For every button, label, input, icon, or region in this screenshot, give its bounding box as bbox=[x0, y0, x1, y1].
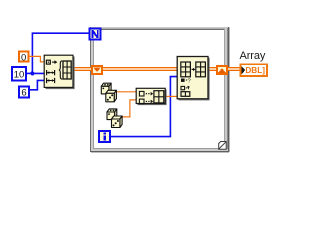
wire: constant 10 to Initialize Array (blue scalar) bbox=[27, 72, 44, 74]
count terminal N bbox=[90, 29, 101, 40]
svg-text:10: 10 bbox=[14, 70, 25, 81]
wire: junction up and right to count terminal N (blue scalar) bbox=[32, 33, 89, 73]
input array grid bbox=[181, 62, 191, 77]
wire: Build Array to Replace Array Subset (orange scalar) bbox=[165, 95, 177, 97]
dice 1 (random number) bbox=[101, 83, 116, 102]
svg-text:DBL]: DBL] bbox=[245, 66, 265, 75]
dice 2 (random number) bbox=[107, 109, 122, 128]
dimension glyph 2 bbox=[47, 78, 55, 83]
Replace Array Subset node bbox=[177, 57, 209, 100]
length row: outline square bbox=[181, 86, 185, 89]
right shift register terminal bbox=[217, 66, 227, 74]
iteration terminal i bbox=[99, 131, 110, 142]
loop resize corner handle bbox=[219, 142, 227, 150]
svg-text:6: 6 bbox=[21, 88, 26, 99]
wire junction dot on 10-wire bbox=[30, 71, 34, 75]
svg-text:Array: Array bbox=[240, 50, 266, 62]
wire: iteration terminal i to Replace Array Subset index (blue scalar) bbox=[111, 77, 177, 137]
element row 2 bbox=[139, 99, 144, 104]
dimension glyph 1 bbox=[47, 70, 55, 75]
svg-text:?: ? bbox=[188, 78, 191, 84]
left shift register terminal bbox=[92, 66, 102, 74]
svg-text:0: 0 bbox=[21, 52, 26, 63]
wire: dice 1 to Build Array (orange scalar) bbox=[116, 91, 137, 93]
subarray row bbox=[181, 92, 190, 97]
wire: constant 6 to Initialize Array (blue scalar) bbox=[30, 80, 44, 89]
wire: constant 0 to Initialize Array element (orange scalar) bbox=[30, 56, 45, 62]
arrow between grids bbox=[192, 68, 194, 70]
constant 0 bbox=[19, 52, 29, 64]
wire: right shift register to Array indicator (orange 2D array) bbox=[228, 68, 240, 71]
element glyph: square with dot and arrow bbox=[46, 60, 50, 64]
index row: filled square bbox=[181, 79, 185, 82]
constant 10 bbox=[12, 67, 26, 81]
Build Array node bbox=[136, 88, 166, 104]
constant 6 bbox=[19, 86, 29, 98]
wire: Replace Array Subset to right shift register (orange 2D array) bbox=[208, 68, 216, 71]
Initialize Array node bbox=[44, 55, 74, 88]
for-loop border bbox=[90, 27, 230, 153]
wire: dice 2 to Build Array (orange scalar) bbox=[122, 100, 137, 117]
element row 1 bbox=[139, 91, 144, 96]
output array grid bbox=[63, 61, 71, 79]
Array indicator terminal [DBL] bbox=[241, 64, 268, 76]
output brace bbox=[59, 61, 62, 79]
wire: left shift register to Replace Array Subset (orange 2D array) bbox=[103, 68, 177, 71]
wire: Initialize Array to left shift register (orange 2D array) bbox=[73, 68, 92, 71]
output array grid bbox=[154, 91, 164, 103]
output array grid bbox=[196, 62, 206, 77]
